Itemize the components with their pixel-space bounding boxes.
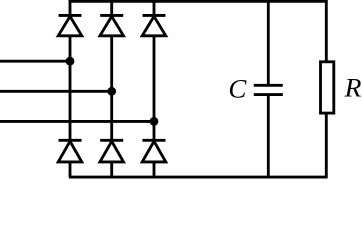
svg-text:C: C (228, 75, 247, 104)
svg-text:R: R (344, 74, 362, 103)
